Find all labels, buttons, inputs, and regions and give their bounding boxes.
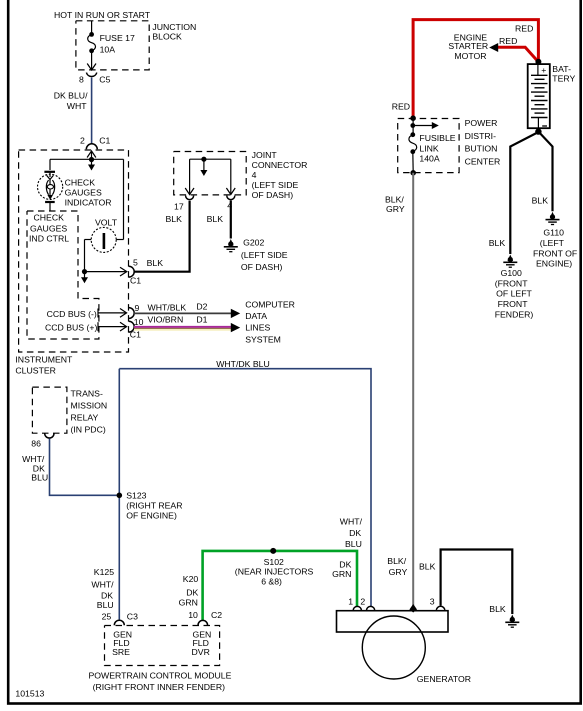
svg-text:GENERATOR: GENERATOR xyxy=(417,674,471,684)
svg-text:D2: D2 xyxy=(196,302,207,312)
svg-text:LINES: LINES xyxy=(245,323,270,333)
label K20 DK GRN xyxy=(179,574,199,607)
svg-text:2: 2 xyxy=(360,597,365,607)
svg-text:OF ENGINE): OF ENGINE) xyxy=(126,511,177,521)
svg-text:K125: K125 xyxy=(94,567,114,577)
battery xyxy=(528,59,576,129)
svg-text:(RIGHT FRONT INNER FENDER): (RIGHT FRONT INNER FENDER) xyxy=(93,682,226,692)
svg-text:C5: C5 xyxy=(99,75,110,85)
svg-text:SYSTEM: SYSTEM xyxy=(245,334,281,344)
svg-text:C2: C2 xyxy=(211,610,222,620)
svg-text:BLU: BLU xyxy=(345,539,362,549)
wire BLK to G110 xyxy=(532,133,553,212)
joint connector 4 xyxy=(174,150,308,200)
wire RED to starter motor xyxy=(489,36,538,62)
svg-text:BLK: BLK xyxy=(419,562,436,572)
svg-text:CCD BUS (+): CCD BUS (+) xyxy=(45,322,97,332)
svg-text:TERY: TERY xyxy=(552,74,575,84)
svg-text:FUSIBLE: FUSIBLE xyxy=(419,133,455,143)
wire BLK pin 4 to G202 xyxy=(230,201,232,239)
powertrain control module xyxy=(89,626,232,692)
svg-text:WHT/BLK: WHT/BLK xyxy=(148,303,187,313)
svg-text:C3: C3 xyxy=(127,611,138,621)
svg-text:8: 8 xyxy=(79,75,84,85)
svg-text:DISTRI-: DISTRI- xyxy=(465,131,496,141)
svg-text:WHT/: WHT/ xyxy=(340,517,363,527)
generator xyxy=(337,611,472,685)
svg-text:G100: G100 xyxy=(501,268,522,278)
svg-text:SRE: SRE xyxy=(112,647,130,657)
svg-text:(RIGHT REAR: (RIGHT REAR xyxy=(126,501,182,511)
svg-text:(IN PDC): (IN PDC) xyxy=(71,425,106,435)
svg-text:POWER: POWER xyxy=(465,118,498,128)
svg-text:C1: C1 xyxy=(130,276,141,286)
svg-text:G202: G202 xyxy=(243,237,264,247)
svg-text:MOTOR: MOTOR xyxy=(454,51,486,61)
svg-text:140A: 140A xyxy=(419,154,439,164)
svg-text:5: 5 xyxy=(133,257,138,267)
splice S123 xyxy=(117,491,183,521)
fuse FUSE 17 10A xyxy=(87,21,135,70)
svg-text:3: 3 xyxy=(430,597,435,607)
splice S102 xyxy=(235,548,314,587)
svg-text:C1: C1 xyxy=(99,135,110,145)
svg-text:WHT/DK BLU: WHT/DK BLU xyxy=(216,359,270,369)
svg-text:TRANS-: TRANS- xyxy=(71,389,103,399)
connector generator pin 3 xyxy=(430,597,445,611)
svg-text:(LEFT SIDE: (LEFT SIDE xyxy=(241,250,288,260)
svg-text:JOINT: JOINT xyxy=(252,150,278,160)
svg-text:FRONT OF: FRONT OF xyxy=(533,248,577,258)
svg-text:DK: DK xyxy=(186,588,198,598)
svg-text:17: 17 xyxy=(174,202,184,212)
svg-text:S102: S102 xyxy=(264,557,284,567)
svg-text:BLK: BLK xyxy=(166,214,183,224)
svg-text:GRY: GRY xyxy=(386,204,405,214)
wire BLK pin 5 to joint connector xyxy=(134,201,189,272)
svg-text:86: 86 xyxy=(31,439,41,449)
connector C1 pin 9 xyxy=(129,303,140,319)
connector C2 pin 10 xyxy=(188,610,222,625)
svg-text:WHT: WHT xyxy=(67,101,87,111)
svg-text:(NEAR INJECTORS: (NEAR INJECTORS xyxy=(235,567,314,577)
connector C5 pin 8 xyxy=(79,73,111,85)
svg-text:CENTER: CENTER xyxy=(465,156,501,166)
label COMPUTER DATA LINES SYSTEM xyxy=(245,299,295,344)
transmission relay xyxy=(31,387,107,449)
power distribution center xyxy=(398,115,501,172)
svg-text:DK: DK xyxy=(349,528,361,538)
svg-text:HOT IN RUN OR START: HOT IN RUN OR START xyxy=(54,10,151,20)
svg-text:D1: D1 xyxy=(196,314,207,324)
svg-text:OF DASH): OF DASH) xyxy=(252,190,294,200)
instrument cluster xyxy=(15,150,128,376)
ccd bus (-) output xyxy=(47,309,127,319)
connector C1 pin 5 xyxy=(129,257,141,285)
svg-text:CHECK: CHECK xyxy=(65,177,96,187)
svg-text:10: 10 xyxy=(134,317,144,327)
svg-text:GAUGES: GAUGES xyxy=(30,224,67,234)
svg-text:+: + xyxy=(541,65,546,75)
wire VIO/BRN D1 xyxy=(134,314,240,332)
svg-text:(LEFT SIDE: (LEFT SIDE xyxy=(252,180,299,190)
svg-text:G110: G110 xyxy=(543,228,564,238)
svg-text:GRN: GRN xyxy=(179,597,198,607)
connector C3 pin 25 xyxy=(102,611,138,625)
svg-text:DK BLU/: DK BLU/ xyxy=(54,91,88,101)
wire cluster internal feed xyxy=(50,151,124,171)
svg-text:RED: RED xyxy=(392,102,410,112)
svg-text:BLK: BLK xyxy=(489,604,506,614)
svg-text:BLK: BLK xyxy=(532,195,549,205)
svg-text:S123: S123 xyxy=(126,491,146,501)
svg-text:BLK: BLK xyxy=(147,258,164,268)
connector pin 4 xyxy=(207,196,235,224)
svg-text:BUTION: BUTION xyxy=(465,144,498,154)
svg-text:FUSE 17: FUSE 17 xyxy=(100,33,135,43)
svg-text:ENGINE): ENGINE) xyxy=(536,259,572,269)
svg-text:BLU: BLU xyxy=(97,600,114,610)
connector C1 pin 10 xyxy=(129,317,144,339)
svg-text:(FRONT: (FRONT xyxy=(495,278,529,288)
svg-text:VOLT: VOLT xyxy=(95,218,118,228)
ground G110 xyxy=(533,212,577,269)
svg-text:4: 4 xyxy=(252,170,257,180)
wire BLK to G100 xyxy=(489,133,538,255)
svg-text:(LEFT: (LEFT xyxy=(540,238,565,248)
connector generator pin 2 xyxy=(360,597,374,611)
wire BLK/GRY xyxy=(385,173,417,613)
svg-text:IND CTRL: IND CTRL xyxy=(29,234,69,244)
wire BLK pin 3 to ground xyxy=(419,550,512,615)
svg-text:BLK: BLK xyxy=(207,214,224,224)
svg-text:STARTER: STARTER xyxy=(448,41,488,51)
fusible link 140A xyxy=(409,119,456,176)
wire WHT/BLK D2 xyxy=(134,302,240,318)
svg-text:RED: RED xyxy=(499,36,517,46)
svg-text:GRN: GRN xyxy=(332,569,351,579)
junction block xyxy=(76,21,196,70)
svg-text:LINK: LINK xyxy=(419,143,439,153)
svg-text:RED: RED xyxy=(515,23,533,33)
svg-text:OF LEFT: OF LEFT xyxy=(496,289,532,299)
wire DK BLU/WHT xyxy=(54,78,92,145)
svg-text:GAUGES: GAUGES xyxy=(65,188,102,198)
wire DK GRN S102 xyxy=(203,551,357,621)
svg-text:BLU: BLU xyxy=(31,473,48,483)
connector pin 17 xyxy=(166,196,194,224)
svg-text:JUNCTION: JUNCTION xyxy=(152,22,196,32)
svg-text:K20: K20 xyxy=(183,574,199,584)
svg-text:WHT/: WHT/ xyxy=(91,580,114,590)
svg-text:CHECK: CHECK xyxy=(34,213,65,223)
indicator lamp CHECK GAUGES INDICATOR xyxy=(38,159,112,211)
svg-text:BLK/: BLK/ xyxy=(387,556,406,566)
label K125 WHT/DK BLU xyxy=(91,567,114,610)
svg-text:C1: C1 xyxy=(130,329,141,339)
label HOT IN RUN OR START xyxy=(54,10,151,20)
svg-text:OF DASH): OF DASH) xyxy=(241,262,283,272)
connector generator pin 1 xyxy=(348,597,361,611)
svg-text:MISSION: MISSION xyxy=(71,401,108,411)
ground generator xyxy=(505,615,519,628)
svg-text:CLUSTER: CLUSTER xyxy=(15,366,56,376)
ground G100 xyxy=(495,255,534,320)
svg-text:25: 25 xyxy=(102,611,112,621)
label ENGINE STARTER MOTOR xyxy=(448,33,488,61)
check gauges ind ctrl module xyxy=(27,211,99,339)
svg-text:INDICATOR: INDICATOR xyxy=(65,198,112,208)
wire volt gauge to pin 5 xyxy=(81,267,127,283)
svg-text:DVR: DVR xyxy=(192,647,210,657)
svg-text:POWERTRAIN CONTROL MODULE: POWERTRAIN CONTROL MODULE xyxy=(89,671,232,681)
wire WHT/DK BLU relay branch xyxy=(22,439,116,496)
svg-text:DK: DK xyxy=(101,590,113,600)
svg-text:BLOCK: BLOCK xyxy=(152,32,182,42)
svg-text:COMPUTER: COMPUTER xyxy=(245,299,295,309)
svg-text:CONNECTOR: CONNECTOR xyxy=(252,160,308,170)
svg-text:VIO/BRN: VIO/BRN xyxy=(148,314,184,324)
wire WHT/DK BLU field sense xyxy=(119,359,371,620)
svg-text:BLK: BLK xyxy=(489,238,506,248)
svg-text:2: 2 xyxy=(80,135,85,145)
svg-text:INSTRUMENT: INSTRUMENT xyxy=(15,354,73,364)
svg-text:DK: DK xyxy=(339,559,351,569)
connector C1 pin 2 xyxy=(80,135,110,149)
wire RED battery feed xyxy=(392,20,539,118)
svg-text:10A: 10A xyxy=(100,45,116,55)
svg-text:FENDER): FENDER) xyxy=(495,309,534,319)
svg-text:DATA: DATA xyxy=(245,311,267,321)
svg-text:CCD BUS (-): CCD BUS (-) xyxy=(47,309,97,319)
voltmeter VOLT xyxy=(85,159,124,271)
ccd bus (+) output xyxy=(45,322,127,332)
svg-text:1: 1 xyxy=(348,597,353,607)
svg-text:101513: 101513 xyxy=(15,688,44,698)
svg-text:6 &8): 6 &8) xyxy=(261,576,282,586)
node battery negative xyxy=(535,128,541,134)
label 101513 xyxy=(15,688,44,698)
svg-text:RELAY: RELAY xyxy=(71,413,99,423)
svg-text:9: 9 xyxy=(135,303,140,313)
svg-text:GRY: GRY xyxy=(389,567,408,577)
svg-text:10: 10 xyxy=(188,610,198,620)
svg-text:FRONT: FRONT xyxy=(498,299,529,309)
ground G202 xyxy=(224,237,288,272)
